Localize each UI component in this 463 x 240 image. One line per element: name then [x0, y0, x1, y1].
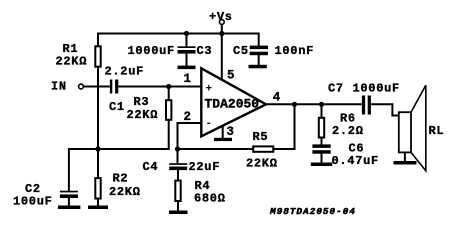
svg-text:0.47uF: 0.47uF	[332, 154, 379, 168]
svg-text:22uF: 22uF	[189, 160, 221, 174]
wire R4 to ground	[177, 202, 179, 211]
junction dot rail-C3	[184, 31, 189, 36]
wire R1 column bottom down to midpoint node (crosses input wire, no dot)	[97, 67, 99, 151]
capacitor C2 (100uF electrolytic)	[60, 191, 78, 193]
wire speaker to ground	[404, 152, 406, 161]
ground C5	[249, 65, 267, 69]
svg-text:C5: C5	[233, 44, 249, 58]
capacitor C6 (0.47uF)	[312, 144, 330, 148]
wire C5 stub plates to ground	[258, 55, 260, 66]
resistor R1	[95, 46, 100, 66]
svg-text:4: 4	[273, 91, 281, 105]
capacitor C1 (2.2uF)	[110, 80, 112, 94]
ground speaker	[394, 161, 417, 165]
junction dot midpoint R1-R2	[95, 146, 100, 151]
wire C3 stub from rail to plates	[186, 34, 188, 47]
svg-text:5: 5	[227, 69, 235, 83]
wire R2 bottom to ground	[97, 199, 99, 206]
op-amp U1 TDA2050 triangle	[201, 68, 266, 136]
resistor R3	[166, 100, 171, 120]
speaker RL	[399, 112, 411, 152]
wire R3 bottom stub down to midpoint wire corner	[168, 120, 170, 150]
svg-text:TDA2050: TDA2050	[205, 97, 260, 112]
wire input after C1 to triangle pin 1	[118, 86, 201, 88]
svg-text:100uF: 100uF	[13, 195, 53, 209]
capacitor C7 (1000uF)	[362, 96, 365, 115]
wire output from pin 4 to C7	[264, 103, 362, 105]
resistor R5	[253, 146, 273, 151]
wire output after C7 to speaker	[371, 103, 399, 115]
svg-text:R2: R2	[113, 172, 129, 186]
svg-text:1000uF: 1000uF	[128, 44, 175, 58]
wire R1 column top	[97, 33, 99, 47]
svg-text:C4: C4	[143, 160, 159, 174]
wire R2 top stub	[97, 149, 99, 178]
wire R5 right end up to output	[274, 104, 295, 150]
svg-text:M98TDA2050-04: M98TDA2050-04	[269, 206, 356, 217]
wire R3 top stub	[168, 87, 170, 101]
wire midpoint node horizontal	[69, 148, 170, 150]
wire pin 2 stub horizontal	[178, 122, 202, 124]
svg-text:22KΩ: 22KΩ	[246, 157, 278, 171]
svg-text:2.2Ω: 2.2Ω	[332, 124, 364, 138]
junction dot input-R3	[166, 84, 171, 89]
wire C2 to ground	[68, 197, 70, 206]
svg-text:-: -	[206, 118, 213, 130]
wire C3 stub plates to ground	[186, 53, 188, 66]
wire pin 3 stub	[222, 124, 224, 139]
wire pin 2 column down to C4	[177, 122, 179, 163]
svg-text:R5: R5	[253, 130, 269, 144]
junction dot rail-Vs-pin5	[219, 31, 224, 36]
ground C6	[311, 163, 333, 167]
svg-text:2.2uF: 2.2uF	[105, 65, 145, 79]
svg-text:2: 2	[184, 110, 192, 124]
svg-text:100nF: 100nF	[275, 44, 315, 58]
svg-text:+: +	[206, 84, 213, 96]
svg-text:22KΩ: 22KΩ	[56, 55, 88, 69]
svg-text:22KΩ: 22KΩ	[109, 185, 141, 199]
resistor R6	[319, 118, 324, 138]
ground C3	[178, 66, 196, 70]
svg-text:RL: RL	[429, 124, 445, 138]
svg-text:22KΩ: 22KΩ	[127, 108, 159, 122]
svg-text:3: 3	[227, 125, 235, 139]
svg-text:+Vs: +Vs	[209, 10, 233, 24]
resistor R2	[95, 178, 100, 198]
capacitor C5 (100nF)	[250, 46, 268, 50]
svg-text:680Ω: 680Ω	[194, 192, 226, 206]
junction dot output-R6	[319, 102, 324, 107]
wire R6 to C6	[321, 138, 323, 145]
wire C5 stub from rail to plates	[258, 33, 260, 47]
wire feedback from pin2 node to R5	[178, 148, 254, 150]
wire input from IN terminal to pin 1	[84, 86, 110, 88]
resistor R4	[175, 181, 180, 201]
wire C6 to ground	[321, 154, 323, 164]
wire C4 to R4	[177, 169, 179, 180]
ground pin 3	[214, 138, 232, 141]
ground R4	[169, 211, 188, 215]
svg-text:R3: R3	[134, 95, 150, 109]
wire +Vs terminal stub and pin 5 column	[221, 24, 223, 82]
terminal IN	[79, 84, 84, 89]
svg-text:C7: C7	[328, 82, 344, 96]
junction dot output-R5	[292, 102, 297, 107]
capacitor C4 (22uF electrolytic)	[169, 163, 187, 165]
svg-text:IN: IN	[51, 80, 67, 94]
capacitor C3 (1000uF electrolytic)	[178, 46, 196, 48]
svg-text:C3: C3	[197, 44, 213, 58]
wire top supply rail	[98, 33, 259, 35]
junction dot pin2-C4-R5	[175, 146, 180, 151]
terminal +Vs	[219, 20, 224, 25]
ground R2	[88, 206, 108, 210]
ground C2	[58, 206, 81, 210]
wire R6 top stub	[321, 104, 323, 117]
wire C2 column	[68, 148, 70, 191]
svg-text:1: 1	[184, 72, 192, 86]
svg-text:1000uF: 1000uF	[353, 82, 400, 96]
svg-text:C1: C1	[109, 100, 125, 114]
